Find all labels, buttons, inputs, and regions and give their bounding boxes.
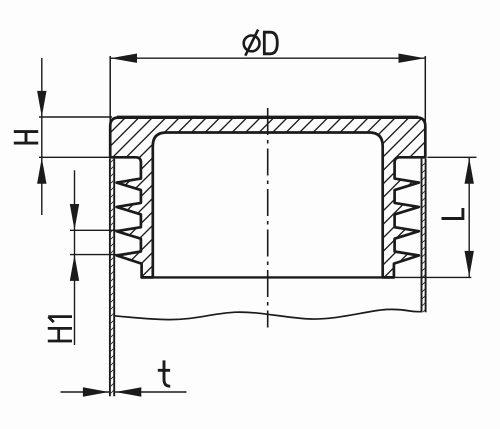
cap bottom rim line bbox=[141, 276, 394, 278]
dim L arrowhead top bbox=[465, 158, 474, 184]
dim t arrowhead right bbox=[115, 387, 141, 396]
dim L arrowhead bottom bbox=[465, 251, 474, 277]
dim H1 arrowhead lower bbox=[70, 255, 79, 281]
dim H1 arrowhead upper bbox=[70, 204, 79, 230]
tube right wall hatch bbox=[422, 159, 425, 313]
tube right wall outer line bbox=[425, 159, 427, 313]
dim H1 line between bbox=[74, 230, 76, 254]
dim t line right tail bbox=[115, 391, 186, 393]
dim H1 extension line upper (fin tip) bbox=[70, 229, 127, 231]
label t bbox=[158, 360, 170, 386]
dim H line top tail bbox=[41, 58, 43, 117]
dim t arrowhead left bbox=[83, 387, 109, 396]
dim H line bottom tail bbox=[41, 157, 43, 215]
label H1 (rotated): letter H bbox=[48, 327, 72, 342]
dim L extension line bottom bbox=[395, 276, 471, 278]
cap top surface (extra weight) bbox=[117, 116, 418, 119]
dim H arrowhead bottom bbox=[37, 158, 46, 184]
dim H extension line top bbox=[39, 116, 112, 118]
dim H extension line bottom bbox=[39, 156, 109, 158]
cap body cross-section (hatched) bbox=[110, 118, 425, 278]
dim H1 line lower tail bbox=[74, 255, 76, 345]
dim L dimension line bbox=[468, 157, 470, 277]
dim H1 extension line lower (fin tip) bbox=[70, 254, 127, 256]
tube right wall inner line bbox=[421, 159, 423, 313]
tube break wavy line bbox=[115, 309, 422, 319]
dim OD arrowhead left bbox=[111, 54, 137, 63]
dim L extension line top bbox=[428, 156, 477, 158]
label OD: letter D bbox=[263, 32, 277, 54]
dim OD dimension line bbox=[110, 57, 425, 59]
label L (rotated) bbox=[442, 208, 465, 220]
dim H line between extension lines bbox=[41, 117, 43, 158]
dim OD extension line left bbox=[109, 56, 111, 129]
dim H arrowhead top bbox=[37, 91, 46, 117]
label OD: diameter symbol bbox=[244, 36, 260, 52]
dim OD arrowhead right bbox=[399, 54, 425, 63]
centerline (dash-dot) bbox=[267, 108, 269, 328]
dim H1 line upper tail bbox=[74, 170, 76, 230]
label H (rotated) bbox=[14, 130, 38, 144]
dim t line left tail bbox=[61, 391, 110, 393]
tube left wall inner line bbox=[113, 159, 115, 397]
dim OD extension line right bbox=[424, 56, 426, 129]
tube left wall outer line bbox=[109, 159, 111, 397]
tube left wall hatch bbox=[111, 159, 114, 397]
label H1 (rotated): digit 1 bbox=[48, 317, 72, 323]
